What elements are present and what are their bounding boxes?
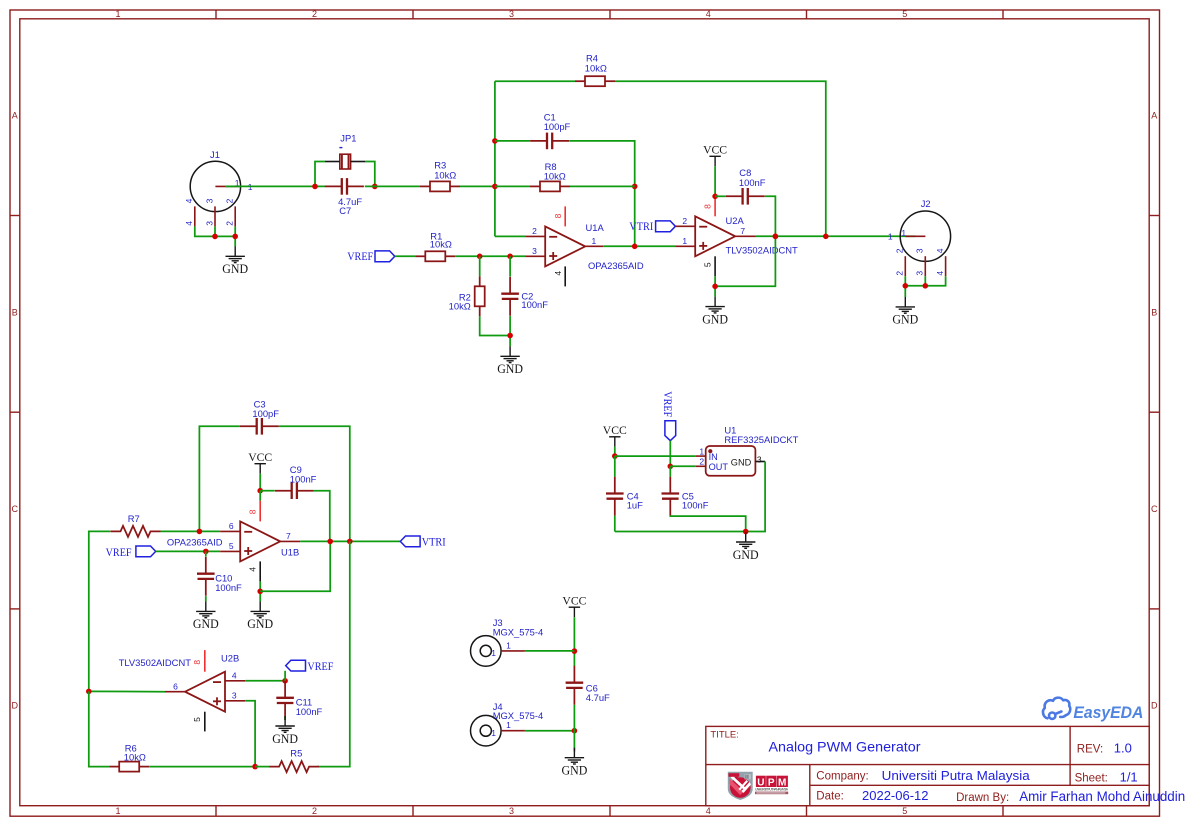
EasyEDA logo cloud icon	[1043, 698, 1070, 719]
svg-text:100nF: 100nF	[682, 500, 709, 511]
ground GND at REF3325	[736, 532, 755, 548]
svg-text:4: 4	[706, 806, 711, 816]
svg-text:2: 2	[312, 806, 317, 816]
svg-text:1/1: 1/1	[1120, 769, 1138, 784]
svg-text:EasyEDA: EasyEDA	[1073, 704, 1143, 722]
svg-text:1: 1	[888, 232, 893, 242]
svg-text:OPA2365AID: OPA2365AID	[588, 260, 644, 271]
U1A pin 1 (output) stub	[585, 245, 603, 247]
wire C4 top	[614, 456, 616, 477]
svg-text:OPA2365AID: OPA2365AID	[167, 537, 223, 548]
J1 pin 1	[215, 185, 240, 187]
junction node B / R8	[632, 184, 638, 190]
wire C3 left vertical	[199, 426, 239, 531]
wire R6 to pin3 node	[149, 766, 255, 768]
svg-text:2: 2	[532, 226, 537, 236]
resistor R8	[530, 181, 570, 191]
svg-text:VREF: VREF	[307, 661, 333, 673]
JP1 pin leads (black)	[325, 161, 365, 163]
U2B pin 4 stub	[225, 680, 245, 682]
svg-text:1: 1	[491, 728, 496, 738]
wire R1 to U1A pin3	[455, 255, 525, 257]
U1 pin 1 stub	[696, 455, 706, 457]
junction C2 tap	[507, 253, 513, 259]
UPM university logo	[728, 772, 789, 800]
junction VCC/C9/pin8	[257, 488, 263, 494]
svg-text:1: 1	[699, 446, 704, 456]
svg-text:8: 8	[703, 204, 713, 209]
frame row letters	[11, 111, 1158, 711]
svg-text:3: 3	[532, 246, 537, 256]
wire J1 pin3 stub	[214, 226, 216, 236]
JP1 value dash	[339, 147, 342, 149]
svg-text:D: D	[11, 701, 18, 711]
U1A pin 4 (V-) stub	[564, 266, 566, 286]
wire J2 pin3 stub	[924, 276, 926, 286]
U2A pin 1 stub	[675, 245, 695, 247]
ground GND below U1B	[251, 601, 270, 617]
svg-text:Company:: Company:	[816, 771, 868, 783]
junction output/C9-loop	[327, 539, 333, 545]
junction output/left vertical	[86, 689, 92, 695]
wire node A vertical (R4/C1/R8/U1A-)	[494, 81, 496, 236]
svg-text:VTRI: VTRI	[629, 221, 653, 233]
svg-text:4: 4	[706, 9, 711, 19]
junction C5/GND/bus	[743, 529, 749, 535]
svg-text:10kΩ: 10kΩ	[544, 171, 566, 182]
svg-text:6: 6	[229, 521, 234, 531]
ground GND at J2	[896, 297, 915, 313]
wire VCC node to U1B pin8	[259, 491, 261, 501]
U1 pin 2 stub	[696, 465, 706, 467]
svg-text:Amir Farhan Mohd Ainuddin: Amir Farhan Mohd Ainuddin	[1019, 789, 1185, 804]
svg-text:REV:: REV:	[1077, 743, 1103, 755]
svg-text:UNIVERSITI PUTRA MALAYSIA: UNIVERSITI PUTRA MALAYSIA	[755, 788, 789, 792]
resistor R2	[475, 276, 485, 316]
wire U2A pin5 to gnd node	[714, 276, 716, 296]
wire C6 node down	[573, 705, 575, 752]
J2 pin 1	[905, 235, 925, 237]
svg-text:5: 5	[229, 541, 234, 551]
U1 pin 1 marker dot	[708, 449, 712, 453]
connector J4 (MGX_575-4) outer	[471, 715, 502, 746]
wire R7 to U1B pin6	[161, 530, 221, 532]
power flag VCC (REF3325)	[609, 437, 620, 447]
svg-text:D: D	[1151, 701, 1158, 711]
svg-text:GND: GND	[562, 764, 588, 778]
wire R4 left	[495, 80, 575, 82]
svg-text:8: 8	[553, 213, 563, 218]
svg-text:3: 3	[204, 221, 214, 226]
ground GND at J1	[226, 246, 245, 262]
svg-text:R5: R5	[290, 748, 302, 759]
svg-text:7: 7	[286, 531, 291, 541]
resistor R1	[415, 251, 455, 261]
capacitor C11	[276, 681, 294, 720]
wire J2 pin4 to ground bus	[905, 276, 945, 286]
svg-text:U2A: U2A	[726, 215, 745, 226]
U1A pin 8 (V+) stub	[564, 206, 566, 226]
svg-text:2: 2	[699, 457, 704, 467]
wire J1 pin4 to ground bus	[195, 226, 235, 236]
J4 inner circle	[480, 725, 491, 736]
junction output/C8-loop	[773, 234, 779, 240]
U2B pin 8 (V+) stub	[204, 650, 206, 672]
svg-text:2: 2	[682, 216, 687, 226]
svg-text:IN: IN	[709, 452, 718, 462]
svg-text:C: C	[11, 504, 18, 514]
wire C3-loop vertical to R5	[317, 541, 349, 766]
wire R4 right to U2A output node	[615, 81, 826, 236]
wire pin4 loop to output	[260, 541, 330, 591]
svg-text:100nF: 100nF	[739, 177, 766, 188]
svg-text:4: 4	[184, 221, 194, 226]
svg-text:6: 6	[173, 681, 178, 691]
net flag VTRI pentagon (U1B out)	[400, 536, 420, 547]
svg-text:2022-06-12: 2022-06-12	[862, 788, 929, 803]
op-amp U1A	[545, 226, 585, 266]
svg-text:100nF: 100nF	[290, 473, 317, 484]
wire U1 pin3 down	[615, 462, 765, 532]
svg-text:8: 8	[248, 509, 258, 514]
capacitor C3	[240, 418, 279, 435]
svg-text:REF3325AIDCKT: REF3325AIDCKT	[724, 434, 798, 445]
junction output/C3-loop	[347, 539, 353, 545]
junction JP1/C7 right	[372, 184, 378, 190]
wire node A to U1A pin2	[495, 235, 526, 237]
svg-text:1: 1	[592, 236, 597, 246]
wire J1 pin2 stub	[234, 226, 236, 246]
junction C10 tap	[203, 549, 209, 555]
junction J1 pin2/gnd	[232, 234, 238, 240]
svg-text:Sheet:: Sheet:	[1075, 773, 1108, 785]
net flag VREF pentagon (REF3325)	[665, 421, 676, 441]
svg-text:VREF: VREF	[106, 547, 132, 559]
junction J3/C6/VCC	[572, 648, 578, 654]
U1B pin 6 stub	[220, 530, 240, 532]
wire U1B output to VTRI	[300, 540, 400, 542]
wire C3 right vertical	[279, 426, 350, 541]
wire C4 bottom	[614, 516, 616, 532]
wire C5 bottom route	[670, 516, 745, 532]
wire J2 pin2 stub	[904, 276, 906, 297]
wire J3 to VCC node	[525, 650, 575, 652]
wire VCC to U1B pin8/C9	[259, 474, 261, 491]
J3 inner circle	[480, 645, 491, 656]
svg-text:A: A	[12, 111, 18, 121]
svg-text:1.0: 1.0	[1114, 740, 1132, 755]
svg-text:GND: GND	[733, 548, 759, 562]
capacitor C7	[325, 178, 364, 195]
svg-text:GND: GND	[193, 617, 219, 631]
wire JP1 right branch	[365, 162, 375, 187]
U2A pin 2 stub	[675, 225, 695, 227]
svg-text:VCC: VCC	[603, 423, 627, 437]
wire C1 right to node B	[569, 141, 635, 246]
svg-text:J2: J2	[921, 198, 931, 209]
svg-text:R7: R7	[128, 513, 140, 524]
resistor R7	[111, 526, 161, 537]
resistor R6	[109, 762, 149, 772]
resistor R3	[420, 181, 460, 191]
J4 pin 1	[501, 730, 525, 732]
svg-text:2: 2	[225, 221, 235, 226]
net flag VREF pentagon (U2B)	[286, 660, 306, 671]
wire C9 left stub	[260, 490, 274, 492]
svg-text:5: 5	[192, 717, 202, 722]
svg-text:JP1: JP1	[340, 132, 356, 143]
capacitor C4	[606, 477, 624, 516]
svg-text:100nF: 100nF	[521, 299, 548, 310]
svg-text:GND: GND	[497, 362, 523, 376]
junction J2 pin3/gnd	[923, 283, 929, 289]
wire VCC to U2A pin8/C8	[714, 166, 716, 196]
svg-text:1uF: 1uF	[627, 500, 643, 511]
svg-text:3: 3	[757, 455, 762, 465]
svg-text:TLV3502AIDCNT: TLV3502AIDCNT	[726, 245, 799, 256]
ground GND below C6	[565, 748, 584, 764]
svg-text:1: 1	[506, 640, 511, 650]
U1B pin 4 (V-) stub	[259, 561, 261, 581]
svg-text:Date:: Date:	[816, 790, 844, 802]
comparator U2B	[185, 672, 225, 712]
wire pin3 node to R5	[255, 766, 269, 768]
svg-text:100pF: 100pF	[544, 121, 571, 132]
wire C7 to R3	[365, 185, 420, 187]
wire VREF to R1	[395, 255, 416, 257]
wire C9 right loop down	[314, 491, 330, 542]
svg-text:5: 5	[902, 9, 907, 19]
svg-text:U2B: U2B	[221, 653, 239, 664]
svg-text:MGX_575-4: MGX_575-4	[493, 710, 544, 721]
wire C2 bottom	[509, 316, 511, 346]
J1 pins 4,3,2 (to ground)	[195, 206, 235, 226]
svg-text:10kΩ: 10kΩ	[434, 170, 456, 181]
svg-text:4: 4	[935, 248, 945, 253]
svg-text:C: C	[1151, 504, 1158, 514]
power flag VCC (U2A)	[709, 156, 720, 166]
svg-text:3: 3	[509, 806, 514, 816]
svg-text:B: B	[1151, 307, 1157, 317]
svg-text:1: 1	[506, 720, 511, 730]
wire C1 left stub	[495, 140, 530, 142]
wire VCC to C4/IN	[614, 447, 616, 456]
junction output/R4	[823, 234, 829, 240]
svg-text:U1B: U1B	[281, 547, 299, 558]
wire U1A output to U2A pin1	[603, 245, 675, 247]
J2 pins 2,3,4 (to ground)	[905, 256, 945, 276]
capacitor C10	[197, 557, 215, 596]
svg-text:3: 3	[232, 690, 237, 700]
wire R2 top stub	[479, 256, 481, 276]
svg-text:3: 3	[915, 248, 925, 253]
U1 pin 3 stub	[755, 461, 765, 463]
svg-text:4: 4	[553, 271, 563, 276]
svg-text:Analog PWM Generator: Analog PWM Generator	[769, 739, 921, 755]
svg-text:1: 1	[115, 806, 120, 816]
svg-text:J1: J1	[210, 149, 220, 160]
net flag VREF pentagon	[375, 251, 395, 262]
U2A pin 8 (V+) stub	[714, 196, 716, 216]
junction VCC/C8/pin8	[712, 194, 718, 200]
svg-text:100nF: 100nF	[296, 706, 323, 717]
wire C8 right loop down	[715, 196, 775, 286]
net flag VREF pentagon (U1B)	[136, 546, 156, 557]
U2B pin 6 (output) stub	[165, 691, 185, 693]
svg-text:GND: GND	[222, 262, 248, 276]
svg-text:4: 4	[184, 198, 194, 203]
svg-text:10kΩ: 10kΩ	[585, 63, 607, 74]
power flag VCC (U1B)	[255, 464, 266, 474]
svg-text:2: 2	[225, 198, 235, 203]
svg-text:100pF: 100pF	[252, 408, 279, 419]
svg-text:10kΩ: 10kΩ	[430, 238, 452, 249]
wire VREF flag to OUT node	[669, 441, 671, 467]
svg-text:100nF: 100nF	[215, 582, 242, 593]
wire J1 pin1 to JP1/C7 node	[225, 185, 325, 187]
svg-text:VREF: VREF	[347, 251, 373, 263]
U1B pin 8 (V+) stub	[259, 501, 261, 522]
title block frame	[706, 726, 1149, 805]
svg-text:2: 2	[312, 9, 317, 19]
jumper JP1 body	[340, 154, 351, 169]
wire VREF flag stub	[284, 671, 286, 681]
ground GND below U2A	[705, 297, 724, 313]
power flag VCC (J3/J4)	[569, 607, 580, 617]
junction J1 pin3/gnd	[212, 234, 218, 240]
capacitor C6	[566, 666, 584, 705]
wire OUT node to U1 OUT	[670, 465, 696, 467]
junction J2 pin2/gnd	[903, 283, 909, 289]
svg-text:B: B	[12, 307, 18, 317]
junction J4/C6/GND	[572, 728, 578, 734]
svg-text:A: A	[1151, 111, 1157, 121]
wire U2B output to left vertical	[89, 690, 165, 692]
svg-text:VTRI: VTRI	[422, 537, 446, 549]
svg-text:OUT: OUT	[709, 462, 729, 472]
svg-text:3: 3	[509, 9, 514, 19]
wire JP1 left branch	[315, 162, 325, 187]
svg-text:1: 1	[901, 228, 906, 238]
svg-text:10kΩ: 10kΩ	[124, 752, 146, 763]
junction VCC/C4/IN	[612, 453, 618, 459]
junction C3/R7/pin6	[197, 529, 203, 535]
svg-text:Universiti Putra Malaysia: Universiti Putra Malaysia	[882, 768, 1031, 783]
connector J3 (MGX_575-4) outer	[471, 636, 502, 667]
capacitor C2	[501, 277, 519, 316]
svg-text:GND: GND	[892, 313, 918, 327]
capacitor C9	[275, 482, 314, 499]
capacitor C5	[662, 477, 680, 516]
junction R6/R5/pin3	[252, 764, 258, 770]
svg-text:GND: GND	[702, 312, 728, 326]
op-amp U1B	[240, 521, 280, 561]
wire R7 left vertical	[89, 531, 111, 691]
svg-text:8: 8	[192, 660, 202, 665]
svg-text:4: 4	[247, 567, 257, 572]
svg-text:TLV3502AIDCNT: TLV3502AIDCNT	[119, 657, 192, 668]
svg-text:GND: GND	[731, 457, 752, 467]
wire C8 left stub	[715, 195, 726, 197]
wire R2 bottom to gnd bus	[480, 316, 510, 335]
wire R3 to node A	[460, 185, 495, 187]
svg-text:VCC: VCC	[562, 594, 586, 608]
net flag VTRI pentagon	[656, 221, 676, 232]
junction node A / R3-R8	[492, 184, 498, 190]
wire R8 right	[570, 185, 635, 187]
U2A pin 5 (V-) stub	[714, 256, 716, 276]
U2B pin 3 stub	[225, 700, 245, 702]
svg-text:Drawn By:: Drawn By:	[956, 792, 1009, 804]
connector J2 (audio jack)	[900, 211, 950, 261]
wire R8 left	[495, 185, 530, 187]
wire U2A output to J2	[756, 235, 916, 237]
junction VREF/C5/OUT	[668, 464, 674, 470]
wire U2B pin3 down to R5/R6 bus	[245, 701, 255, 767]
wire VREF to U1B pin5	[156, 550, 221, 552]
ground GND below C11	[275, 716, 294, 732]
wire VCC down to J3 node	[573, 617, 575, 666]
wire left vertical to R6	[89, 691, 109, 766]
capacitor C8	[726, 188, 765, 205]
svg-text:GND: GND	[247, 617, 273, 631]
wire J4 to C6 node	[525, 730, 575, 732]
wire C5 top	[669, 466, 671, 476]
svg-text:2: 2	[895, 248, 905, 253]
junction R2/C2 ground node	[507, 333, 513, 339]
U1B pin 5 stub	[220, 550, 240, 552]
svg-text:VREF: VREF	[661, 391, 673, 417]
svg-text:U1A: U1A	[586, 222, 605, 233]
svg-text:1: 1	[682, 236, 687, 246]
wire U1B pin4 to gnd	[259, 581, 261, 601]
U2A pin 7 (output) stub	[735, 235, 756, 237]
svg-text:4: 4	[935, 271, 945, 276]
svg-text:10kΩ: 10kΩ	[449, 301, 471, 312]
svg-text:C7: C7	[339, 205, 351, 216]
svg-text:GND: GND	[272, 732, 298, 746]
U1A pin 3 stub	[525, 255, 545, 257]
svg-text:5: 5	[902, 806, 907, 816]
wire U2B pin4 to VREF/C11 node	[245, 680, 285, 682]
wire C2 top stub	[509, 256, 511, 276]
junction node B / output	[632, 244, 638, 250]
junction pin4/VREF/C11	[282, 678, 288, 684]
svg-text:7: 7	[740, 226, 745, 236]
ground GND below C10	[196, 601, 215, 617]
svg-text:VCC: VCC	[703, 143, 727, 157]
wire C10 top stub	[205, 551, 207, 556]
J3 pin 1	[501, 650, 525, 652]
U1B pin 7 (output) stub	[280, 540, 300, 542]
U1A pin 2 stub	[525, 235, 545, 237]
voltage reference U1 (REF3325AIDCKT) body	[706, 446, 756, 476]
wire VCC node to U1 IN	[615, 455, 696, 457]
junction pin5/loop	[712, 284, 718, 290]
svg-text:3: 3	[204, 198, 214, 203]
ground GND below C2	[500, 346, 519, 362]
junction pin4/loop	[257, 589, 263, 595]
junction node A / C1	[492, 138, 498, 144]
svg-text:2: 2	[895, 271, 905, 276]
junction R2 tap	[477, 253, 483, 259]
wire C11 bottom	[284, 716, 286, 720]
junction C8 loop / output	[773, 234, 779, 240]
resistor R5	[269, 761, 319, 772]
resistor R4	[575, 76, 615, 86]
svg-text:4.7uF: 4.7uF	[586, 692, 610, 703]
junction JP1/C7 left	[312, 184, 318, 190]
